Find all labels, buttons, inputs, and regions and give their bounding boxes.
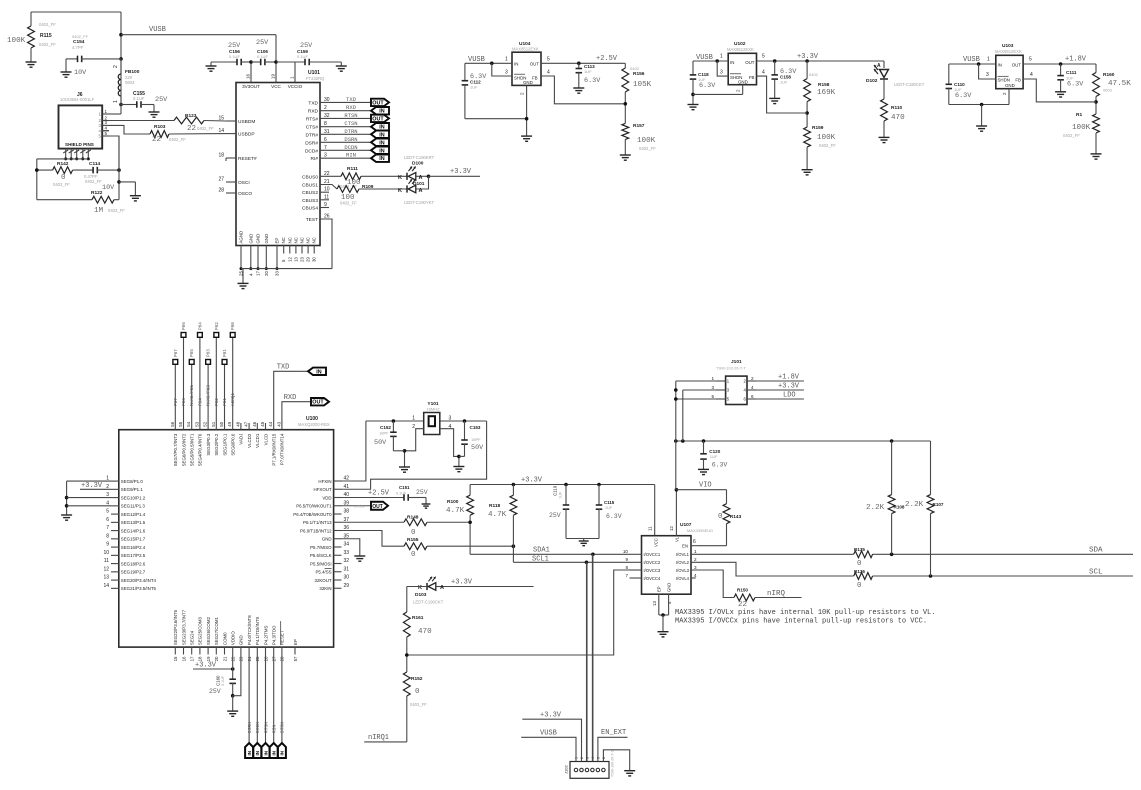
svg-text:OSCI: OSCI	[238, 180, 250, 186]
svg-text:DCDN: DCDN	[255, 722, 261, 733]
svg-text:470: 470	[418, 628, 432, 636]
svg-text:25V: 25V	[416, 489, 428, 496]
svg-text:SEG18/P2.6: SEG18/P2.6	[121, 561, 146, 566]
svg-text:29: 29	[306, 257, 311, 262]
svg-text:22: 22	[187, 125, 196, 133]
svg-text:R148: R148	[407, 515, 419, 521]
svg-text:50V: 50V	[374, 439, 387, 447]
svg-text:IN: IN	[379, 140, 384, 146]
svg-text:13: 13	[652, 601, 657, 606]
svg-text:I/OVL3: I/OVL3	[676, 568, 690, 573]
svg-text:GND: GND	[666, 583, 671, 592]
svg-text:SEG20/P3.4/INT4: SEG20/P3.4/INT4	[121, 578, 157, 583]
svg-text:GND: GND	[1005, 83, 1015, 88]
svg-text:1UF: 1UF	[710, 454, 718, 459]
svg-text:2: 2	[324, 105, 327, 111]
svg-text:32KIN: 32KIN	[319, 586, 331, 591]
svg-text:+1.8V: +1.8V	[1065, 56, 1087, 64]
svg-text:CBUS0: CBUS0	[302, 174, 318, 180]
svg-text:P4.1/TDI/INT9: P4.1/TDI/INT9	[255, 616, 260, 645]
svg-text:SDA1: SDA1	[533, 547, 550, 555]
svg-text:1: 1	[720, 54, 723, 60]
svg-text:I/OVCC4: I/OVCC4	[644, 576, 661, 581]
svg-text:18: 18	[218, 153, 224, 159]
svg-text:1: 1	[711, 376, 714, 381]
svg-text:P4.2/TMS: P4.2/TMS	[263, 626, 268, 646]
svg-text:CBUS4: CBUS4	[302, 206, 318, 212]
svg-text:R111: R111	[347, 166, 358, 172]
svg-text:MAX8512EXK: MAX8512EXK	[995, 49, 1022, 54]
svg-text:I/OVL4: I/OVL4	[676, 576, 690, 581]
svg-text:105K: 105K	[633, 81, 652, 89]
svg-text:EN: EN	[682, 544, 688, 549]
svg-text:VIO: VIO	[699, 482, 712, 490]
svg-text:100K: 100K	[817, 134, 836, 142]
svg-text:SEG22/P3.6/INT6: SEG22/P3.6/INT6	[173, 609, 178, 645]
svg-text:IN: IN	[263, 750, 268, 755]
svg-text:31: 31	[344, 566, 350, 572]
svg-text:VCCIO: VCCIO	[288, 84, 303, 89]
svg-text:MAXQ2000-RBX: MAXQ2000-RBX	[298, 422, 330, 427]
svg-text:6: 6	[693, 539, 696, 545]
svg-text:0402_FF: 0402_FF	[410, 702, 427, 707]
svg-text:11: 11	[104, 558, 109, 564]
svg-text:DCD#: DCD#	[305, 148, 318, 154]
svg-text:HFXOUT: HFXOUT	[314, 487, 332, 492]
svg-text:4: 4	[1030, 72, 1033, 78]
svg-text:P4.3/TDO: P4.3/TDO	[272, 625, 277, 645]
svg-text:USBDM: USBDM	[238, 119, 255, 125]
svg-text:0402_FF: 0402_FF	[639, 146, 656, 151]
svg-text:EP: EP	[275, 238, 280, 244]
svg-text:12: 12	[287, 257, 292, 262]
svg-text:16: 16	[181, 656, 186, 661]
svg-text:SCL1: SCL1	[532, 556, 549, 564]
svg-text:2: 2	[751, 376, 754, 381]
svg-text:4: 4	[694, 573, 697, 578]
svg-text:SEG24: SEG24	[190, 630, 195, 645]
svg-text:NC: NC	[287, 237, 292, 243]
svg-text:R150: R150	[737, 588, 748, 593]
svg-text:MAX3395 I/OVLx pins have inter: MAX3395 I/OVLx pins have internal 10K pu…	[675, 609, 935, 617]
svg-text:A: A	[877, 63, 881, 69]
svg-text:33: 33	[344, 550, 350, 556]
svg-text:25V: 25V	[155, 96, 168, 104]
svg-text:OSCO: OSCO	[238, 191, 252, 197]
svg-text:R109: R109	[362, 184, 374, 190]
svg-text:P07: P07	[174, 349, 179, 357]
svg-text:0603: 0603	[1103, 88, 1113, 93]
svg-text:2.2K: 2.2K	[905, 501, 924, 509]
svg-text:43: 43	[276, 421, 281, 426]
svg-text:10V: 10V	[74, 69, 87, 77]
svg-text:OUT: OUT	[1012, 63, 1022, 68]
svg-text:I/OVL2: I/OVL2	[676, 560, 690, 565]
svg-text:IN: IN	[379, 156, 384, 162]
svg-text:53: 53	[194, 421, 199, 426]
svg-text:R103: R103	[154, 124, 166, 130]
svg-text:C160: C160	[216, 675, 221, 686]
svg-text:3: 3	[694, 565, 697, 570]
svg-text:4: 4	[547, 70, 550, 76]
svg-text:P04: P04	[198, 322, 203, 330]
svg-text:NC: NC	[312, 237, 317, 243]
svg-text:3: 3	[505, 70, 508, 76]
svg-text:J101: J101	[731, 359, 742, 365]
svg-text:R136: R136	[854, 569, 865, 574]
svg-text:5: 5	[711, 394, 714, 399]
svg-text:TEST: TEST	[306, 217, 318, 223]
svg-text:SEG27/COM1: SEG27/COM1	[214, 616, 219, 645]
svg-text:57: 57	[293, 656, 298, 661]
svg-text:1: 1	[412, 416, 415, 422]
svg-text:I/OVCC3: I/OVCC3	[644, 568, 661, 573]
svg-text:52: 52	[203, 421, 208, 426]
svg-text:TXD: TXD	[308, 100, 318, 106]
svg-text:5: 5	[762, 54, 765, 60]
svg-text:nIRQ1: nIRQ1	[231, 392, 236, 406]
svg-text:RIN: RIN	[346, 152, 356, 159]
svg-text:4: 4	[762, 70, 765, 76]
svg-text:SEG4/P0.4/INT0: SEG4/P0.4/INT0	[198, 433, 203, 466]
svg-text:R161: R161	[412, 615, 424, 621]
svg-text:+3.3V: +3.3V	[451, 579, 473, 587]
svg-text:D102: D102	[866, 78, 878, 84]
svg-text:P06: P06	[182, 398, 187, 406]
svg-text:R142: R142	[57, 161, 69, 167]
svg-text:USBDP: USBDP	[238, 132, 255, 138]
svg-text:SEG13/P1.5: SEG13/P1.5	[121, 520, 146, 525]
svg-text:IN: IN	[316, 369, 321, 375]
svg-text:29: 29	[344, 583, 350, 589]
svg-text:TXD: TXD	[346, 96, 357, 103]
svg-text:1: 1	[113, 100, 119, 103]
svg-text:100K: 100K	[1072, 124, 1091, 132]
svg-text:47: 47	[244, 421, 249, 426]
svg-text:0.1UF: 0.1UF	[396, 492, 407, 496]
svg-text:1UF: 1UF	[470, 85, 478, 90]
svg-text:1UF: 1UF	[780, 80, 788, 85]
svg-text:0402_FF: 0402_FF	[72, 34, 89, 39]
svg-text:P02: P02	[215, 398, 220, 406]
svg-text:GND: GND	[322, 537, 332, 542]
svg-text:SEG12/P1.4: SEG12/P1.4	[121, 512, 146, 517]
svg-text:GND: GND	[264, 234, 269, 244]
svg-text:SEG15/P1.7: SEG15/P1.7	[121, 537, 146, 542]
svg-text:GND: GND	[239, 635, 244, 645]
svg-text:RTSN: RTSN	[344, 112, 357, 119]
svg-text:SEG8/P1.0: SEG8/P1.0	[121, 479, 144, 484]
svg-text:1UF: 1UF	[584, 69, 592, 74]
svg-text:I/OVCC1: I/OVCC1	[644, 552, 661, 557]
svg-text:R118: R118	[489, 503, 501, 509]
svg-text:SEG16/P2.4: SEG16/P2.4	[121, 545, 146, 550]
svg-text:6.3V: 6.3V	[955, 92, 972, 100]
svg-text:6.3V: 6.3V	[584, 77, 601, 85]
svg-text:GND: GND	[248, 234, 253, 244]
svg-text:2: 2	[113, 65, 119, 68]
svg-text:VL: VL	[675, 536, 680, 542]
svg-text:44: 44	[268, 421, 273, 426]
svg-text:25V: 25V	[256, 39, 269, 47]
svg-text:2: 2	[694, 557, 697, 562]
svg-text:32: 32	[324, 113, 330, 119]
svg-text:VUSB: VUSB	[540, 730, 557, 738]
svg-text:HFXIN: HFXIN	[318, 479, 331, 484]
svg-text:IN: IN	[247, 750, 252, 755]
svg-text:NC: NC	[300, 237, 305, 243]
svg-text:30: 30	[312, 257, 317, 262]
svg-text:VDDIO: VDDIO	[231, 631, 236, 645]
svg-text:+3.3V: +3.3V	[797, 53, 819, 61]
svg-text:R1: R1	[1076, 112, 1082, 118]
svg-text:0403_FF: 0403_FF	[53, 182, 70, 187]
svg-text:SHDN: SHDN	[998, 78, 1010, 83]
svg-text:OUT: OUT	[312, 400, 324, 406]
svg-text:P04: P04	[198, 398, 203, 406]
svg-text:R143: R143	[730, 514, 742, 520]
svg-text:P05: P05	[190, 349, 195, 357]
svg-text:nIRQ1: nIRQ1	[368, 734, 389, 742]
svg-text:NC: NC	[281, 237, 286, 243]
svg-text:C152: C152	[380, 425, 391, 430]
svg-text:1UF: 1UF	[559, 491, 563, 499]
svg-text:56: 56	[170, 421, 175, 426]
svg-text:SEG25/COM3: SEG25/COM3	[198, 616, 203, 645]
svg-text:DSRN: DSRN	[247, 722, 253, 733]
svg-text:10: 10	[623, 549, 629, 554]
svg-text:R158: R158	[818, 82, 830, 88]
svg-text:DCDN: DCDN	[344, 144, 357, 151]
svg-text:6: 6	[106, 517, 109, 523]
svg-text:25V: 25V	[209, 688, 221, 695]
svg-text:+3.3V: +3.3V	[81, 482, 103, 490]
svg-text:VADJ: VADJ	[239, 434, 244, 445]
svg-text:R115: R115	[40, 33, 52, 39]
svg-text:+3.3V: +3.3V	[778, 383, 800, 391]
svg-text:25V: 25V	[549, 512, 561, 519]
svg-text:P6.4/T0B/WKOUT0: P6.4/T0B/WKOUT0	[293, 512, 332, 517]
svg-text:LEDT-C190KRT: LEDT-C190KRT	[404, 155, 435, 160]
svg-text:5: 5	[547, 57, 550, 63]
svg-text:169K: 169K	[817, 89, 836, 97]
svg-text:20: 20	[264, 271, 269, 276]
svg-text:IN: IN	[514, 62, 518, 67]
svg-text:EP: EP	[293, 639, 298, 645]
svg-text:9: 9	[625, 557, 628, 562]
svg-text:0402_FF: 0402_FF	[1063, 133, 1080, 138]
svg-text:CTSN: CTSN	[354, 505, 365, 509]
svg-text:7: 7	[106, 525, 109, 531]
svg-text:51: 51	[211, 421, 216, 426]
svg-text:+3.3V: +3.3V	[540, 712, 562, 720]
svg-text:+2.5V: +2.5V	[368, 490, 390, 498]
svg-text:GND: GND	[256, 234, 261, 244]
svg-text:SDA: SDA	[1089, 547, 1103, 555]
svg-text:OUT: OUT	[530, 62, 540, 67]
svg-text:3: 3	[711, 385, 714, 390]
svg-text:MAX8512EXK: MAX8512EXK	[727, 47, 754, 52]
svg-text:13: 13	[293, 257, 298, 262]
svg-text:0: 0	[415, 688, 420, 696]
svg-text:EN_EXT: EN_EXT	[601, 729, 626, 737]
svg-text:K: K	[418, 585, 422, 591]
svg-text:P5.5/MOSI: P5.5/MOSI	[310, 561, 331, 566]
svg-text:32KOUT: 32KOUT	[315, 578, 332, 583]
svg-text:RESET#: RESET#	[238, 156, 257, 162]
svg-text:50V: 50V	[471, 444, 484, 452]
svg-text:470: 470	[891, 114, 905, 122]
svg-text:RXD: RXD	[346, 104, 357, 111]
svg-text:55: 55	[178, 421, 183, 426]
svg-text:CTSN: CTSN	[344, 120, 357, 127]
svg-text:A: A	[419, 175, 423, 181]
svg-text:GND: GND	[738, 80, 748, 85]
svg-text:0.1UF: 0.1UF	[221, 675, 225, 686]
svg-text:R157: R157	[633, 123, 645, 129]
svg-text:30: 30	[344, 575, 350, 581]
svg-text:CBUS3: CBUS3	[302, 198, 318, 204]
svg-text:GND: GND	[523, 80, 533, 85]
svg-text:VUSB: VUSB	[149, 26, 166, 34]
svg-text:SEG3/P0.3: SEG3/P0.3	[206, 433, 211, 456]
svg-text:15: 15	[218, 116, 224, 122]
svg-text:6.3V: 6.3V	[699, 82, 716, 90]
svg-text:AGND: AGND	[239, 231, 244, 244]
svg-text:0.1UF: 0.1UF	[133, 96, 145, 101]
svg-text:TXD: TXD	[277, 364, 290, 372]
svg-text:MAX3395EUD: MAX3395EUD	[687, 528, 713, 533]
svg-text:0403_FF: 0403_FF	[108, 208, 125, 213]
svg-text:4.7K: 4.7K	[446, 507, 465, 515]
svg-text:3V3OUT: 3V3OUT	[242, 84, 260, 89]
svg-text:1: 1	[505, 57, 508, 63]
svg-text:0: 0	[411, 529, 416, 537]
svg-text:LDO: LDO	[783, 392, 796, 400]
svg-text:P7.1/RX0/INT15: P7.1/RX0/INT15	[272, 433, 277, 466]
svg-text:CBUS2: CBUS2	[302, 190, 318, 196]
svg-text:RI#: RI#	[311, 156, 319, 162]
svg-text:3: 3	[986, 72, 989, 78]
svg-text:0.1UF: 0.1UF	[229, 54, 240, 59]
svg-text:SEG5/P0.5/INT1: SEG5/P0.5/INT1	[190, 433, 195, 466]
svg-text:P6.0/T1B/INT12: P6.0/T1B/INT12	[300, 528, 332, 533]
svg-text:MAX8512EXK: MAX8512EXK	[512, 47, 539, 52]
svg-text:VDD: VDD	[322, 495, 331, 500]
svg-text:5: 5	[106, 509, 109, 515]
svg-text:DTR#: DTR#	[305, 132, 318, 138]
svg-text:4: 4	[751, 385, 754, 390]
svg-text:+3.3V: +3.3V	[521, 477, 543, 485]
svg-text:P4.0/TCK/INT8: P4.0/TCK/INT8	[247, 615, 252, 645]
svg-text:RTSN: RTSN	[263, 722, 269, 733]
svg-text:16MHZ: 16MHZ	[426, 407, 440, 412]
svg-text:IN: IN	[255, 750, 260, 755]
svg-text:17: 17	[190, 656, 195, 661]
svg-text:27: 27	[218, 177, 224, 183]
svg-text:I/OVL1: I/OVL1	[676, 552, 690, 557]
svg-text:RIN: RIN	[272, 724, 278, 733]
svg-text:R159: R159	[812, 125, 824, 131]
svg-text:COM0: COM0	[222, 632, 227, 645]
svg-text:14: 14	[103, 583, 109, 589]
svg-text:EP: EP	[657, 586, 662, 592]
svg-text:1: 1	[987, 57, 990, 63]
svg-text:R160: R160	[1103, 72, 1115, 78]
svg-text:FB: FB	[1015, 78, 1021, 83]
svg-text:R152: R152	[411, 676, 423, 682]
svg-text:0402: 0402	[809, 72, 819, 77]
svg-text:R135: R135	[854, 547, 865, 552]
svg-text:SEG1/P0.1: SEG1/P0.1	[222, 433, 227, 456]
svg-text:C153: C153	[470, 425, 481, 430]
svg-text:SEG23/P3.7/INT7: SEG23/P3.7/INT7	[181, 609, 186, 645]
svg-text:6.3V: 6.3V	[606, 513, 622, 520]
svg-text:32: 32	[344, 558, 350, 564]
svg-text:1: 1	[694, 549, 697, 554]
svg-text:18PF: 18PF	[379, 431, 389, 436]
svg-text:FB: FB	[532, 76, 538, 81]
svg-text:P01: P01	[223, 398, 228, 406]
svg-text:1UF: 1UF	[605, 506, 613, 510]
svg-text:K: K	[398, 175, 402, 181]
svg-text:SEG26/COM2: SEG26/COM2	[206, 616, 211, 645]
svg-text:R107: R107	[933, 502, 944, 507]
svg-text:5: 5	[1029, 57, 1032, 63]
svg-text:0.1UF: 0.1UF	[257, 54, 268, 59]
svg-text:DTRN: DTRN	[344, 128, 357, 135]
svg-text:100K: 100K	[637, 137, 656, 145]
svg-text:19: 19	[271, 73, 276, 79]
svg-text:0402_FF: 0402_FF	[85, 179, 102, 184]
svg-text:10103594-0001LF: 10103594-0001LF	[60, 97, 95, 102]
svg-text:13: 13	[103, 575, 109, 581]
svg-text:IN: IN	[280, 750, 285, 755]
svg-text:P02: P02	[215, 322, 220, 330]
svg-text:23: 23	[300, 257, 305, 262]
svg-text:P5.7/MISO: P5.7/MISO	[310, 545, 332, 550]
svg-text:OUT: OUT	[372, 504, 383, 510]
svg-text:LEDT-C190CKT: LEDT-C190CKT	[894, 82, 925, 87]
svg-text:2: 2	[412, 424, 415, 430]
svg-text:21: 21	[222, 656, 227, 661]
svg-text:TSW-106-26-T-S: TSW-106-26-T-S	[611, 749, 615, 777]
svg-text:P03: P03	[207, 349, 212, 357]
svg-text:0.1UF: 0.1UF	[297, 54, 308, 59]
svg-text:DSRN: DSRN	[344, 136, 357, 143]
svg-text:54: 54	[186, 421, 191, 426]
svg-text:OUT: OUT	[372, 100, 384, 106]
svg-text:DSR#: DSR#	[305, 140, 318, 146]
svg-text:NC: NC	[293, 237, 298, 243]
svg-text:R108: R108	[894, 505, 905, 510]
svg-text:31: 31	[324, 129, 330, 135]
svg-text:3: 3	[324, 153, 327, 159]
svg-text:45: 45	[260, 421, 265, 426]
svg-text:VCC: VCC	[271, 84, 281, 89]
svg-text:R123: R123	[185, 113, 197, 119]
svg-text:VLCD: VLCD	[263, 434, 268, 446]
svg-text:P7.0/TX0/INT14: P7.0/TX0/INT14	[280, 433, 285, 465]
svg-text:VLCD1: VLCD1	[255, 433, 260, 448]
svg-text:12: 12	[103, 566, 109, 572]
svg-text:0: 0	[61, 174, 66, 182]
svg-text:C119: C119	[553, 485, 558, 496]
svg-text:VCC: VCC	[654, 538, 659, 547]
svg-text:IN: IN	[379, 148, 384, 154]
svg-text:3: 3	[720, 70, 723, 76]
svg-text:P01: P01	[223, 349, 228, 357]
